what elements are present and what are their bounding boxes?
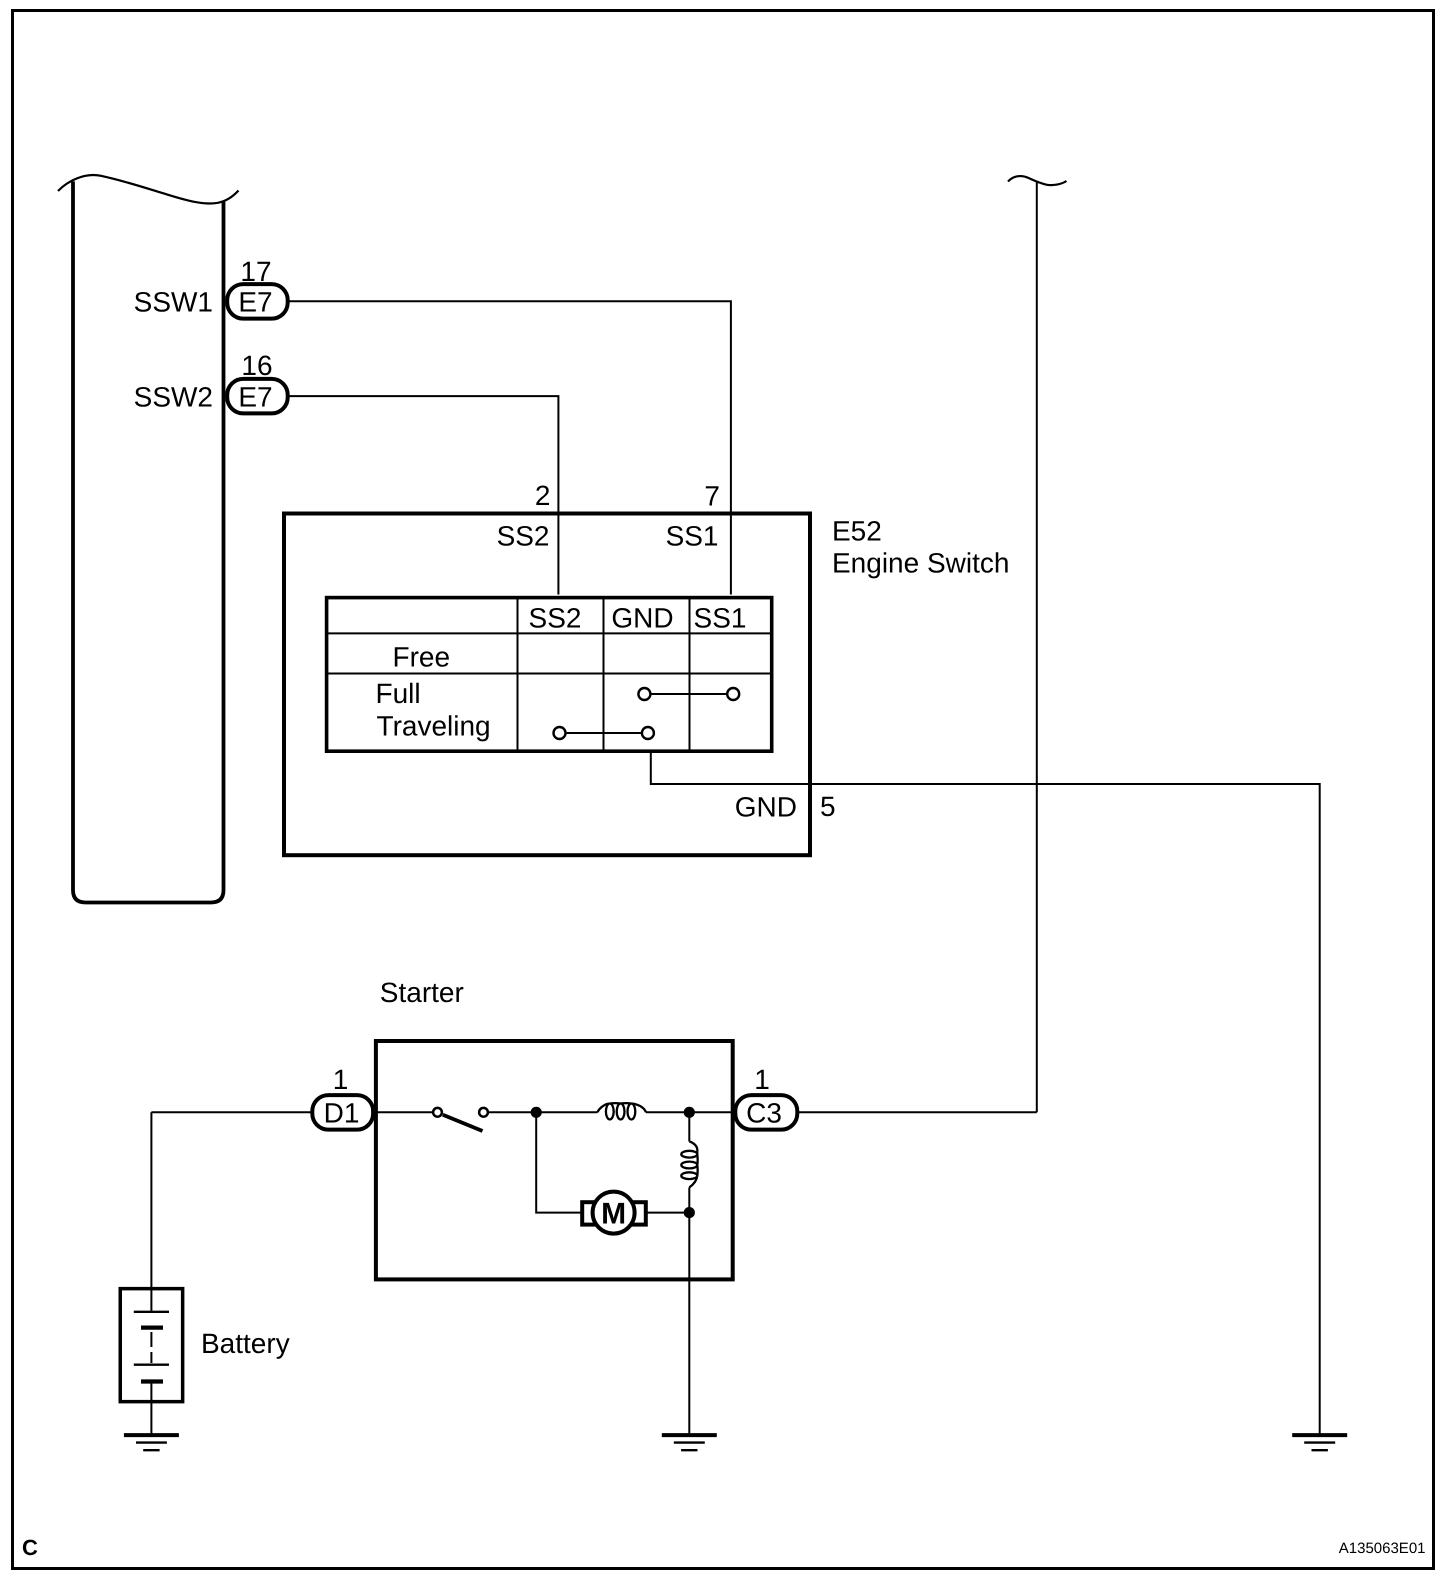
- svg-text:E7: E7: [238, 381, 272, 412]
- svg-text:SS1: SS1: [694, 603, 747, 634]
- ground (starter motor): [662, 1435, 717, 1450]
- svg-text:Battery: Battery: [201, 1328, 290, 1359]
- svg-text:Full: Full: [376, 678, 421, 709]
- wire main to battery: [150, 1112, 152, 1311]
- wire into starter box: [377, 1111, 432, 1113]
- svg-text:Engine Switch: Engine Switch: [832, 548, 1009, 579]
- svg-text:SSW2: SSW2: [134, 381, 213, 412]
- svg-text:2: 2: [535, 480, 551, 511]
- label E52 Engine Switch: [832, 516, 1009, 579]
- svg-text:SS1: SS1: [666, 521, 719, 552]
- motor M: [582, 1192, 646, 1234]
- svg-text:A135063E01: A135063E01: [1339, 1540, 1426, 1557]
- wire C3 to riser: [798, 1111, 1037, 1113]
- svg-text:D1: D1: [324, 1098, 360, 1129]
- wire coil to C3: [646, 1111, 736, 1113]
- connector D1: [312, 1095, 373, 1130]
- hold-in coil (vertical): [681, 1142, 697, 1188]
- svg-text:E52: E52: [832, 516, 882, 547]
- svg-text:Starter: Starter: [380, 977, 464, 1008]
- svg-text:16: 16: [241, 350, 272, 381]
- relay switch: [433, 1108, 488, 1131]
- svg-text:1: 1: [754, 1064, 770, 1095]
- wire SSW2 (E7-16) to SS2: [290, 396, 559, 594]
- svg-text:1: 1: [333, 1064, 349, 1095]
- svg-text:GND: GND: [735, 792, 797, 823]
- starter box: [376, 1041, 733, 1279]
- svg-text:Free: Free: [393, 642, 451, 673]
- svg-text:C: C: [22, 1535, 38, 1560]
- wire GND pin 5 to ground: [651, 751, 1320, 1434]
- contact bridge GND-SS1: [638, 688, 739, 700]
- junction (coil/hold coil): [684, 1107, 695, 1118]
- hold-in coil (vertical) lead: [688, 1112, 690, 1141]
- ECU connector shroud (torn-off box): [58, 175, 239, 902]
- torn-wire squiggle: [1008, 176, 1067, 185]
- engine switch E52 box: [284, 514, 810, 856]
- wire motor to junction: [646, 1212, 690, 1214]
- connector C3: [735, 1095, 797, 1130]
- junction (motor/ground): [684, 1207, 695, 1218]
- svg-text:SS2: SS2: [497, 521, 550, 552]
- svg-text:5: 5: [820, 791, 836, 822]
- svg-text:7: 7: [704, 481, 720, 512]
- ground (engine switch GND): [1292, 1435, 1347, 1450]
- contact bridge SS2-GND: [554, 727, 654, 739]
- svg-text:M: M: [601, 1198, 626, 1231]
- svg-text:SSW1: SSW1: [134, 287, 213, 318]
- wire hold coil to ground: [688, 1188, 690, 1434]
- svg-text:C3: C3: [746, 1098, 782, 1129]
- wire SSW1 (E7-17) to SS1: [290, 301, 731, 594]
- connector E7 pin 17: [227, 284, 288, 319]
- svg-text:GND: GND: [611, 603, 673, 634]
- wire switch to coil: [489, 1111, 598, 1113]
- junction (switch/motor branch): [531, 1107, 542, 1118]
- svg-text:SS2: SS2: [529, 603, 582, 634]
- ground (battery): [124, 1435, 179, 1450]
- svg-text:Traveling: Traveling: [377, 711, 491, 742]
- pull-in coil (horizontal): [598, 1103, 647, 1119]
- svg-text:E7: E7: [238, 287, 272, 318]
- wire junction to motor: [536, 1112, 582, 1212]
- wire riser to C3 (torn at top): [1036, 182, 1038, 1113]
- wire battery to D1: [151, 1111, 311, 1113]
- connector E7 pin 16: [227, 379, 288, 414]
- battery: [120, 1289, 182, 1434]
- contact table: [326, 597, 772, 751]
